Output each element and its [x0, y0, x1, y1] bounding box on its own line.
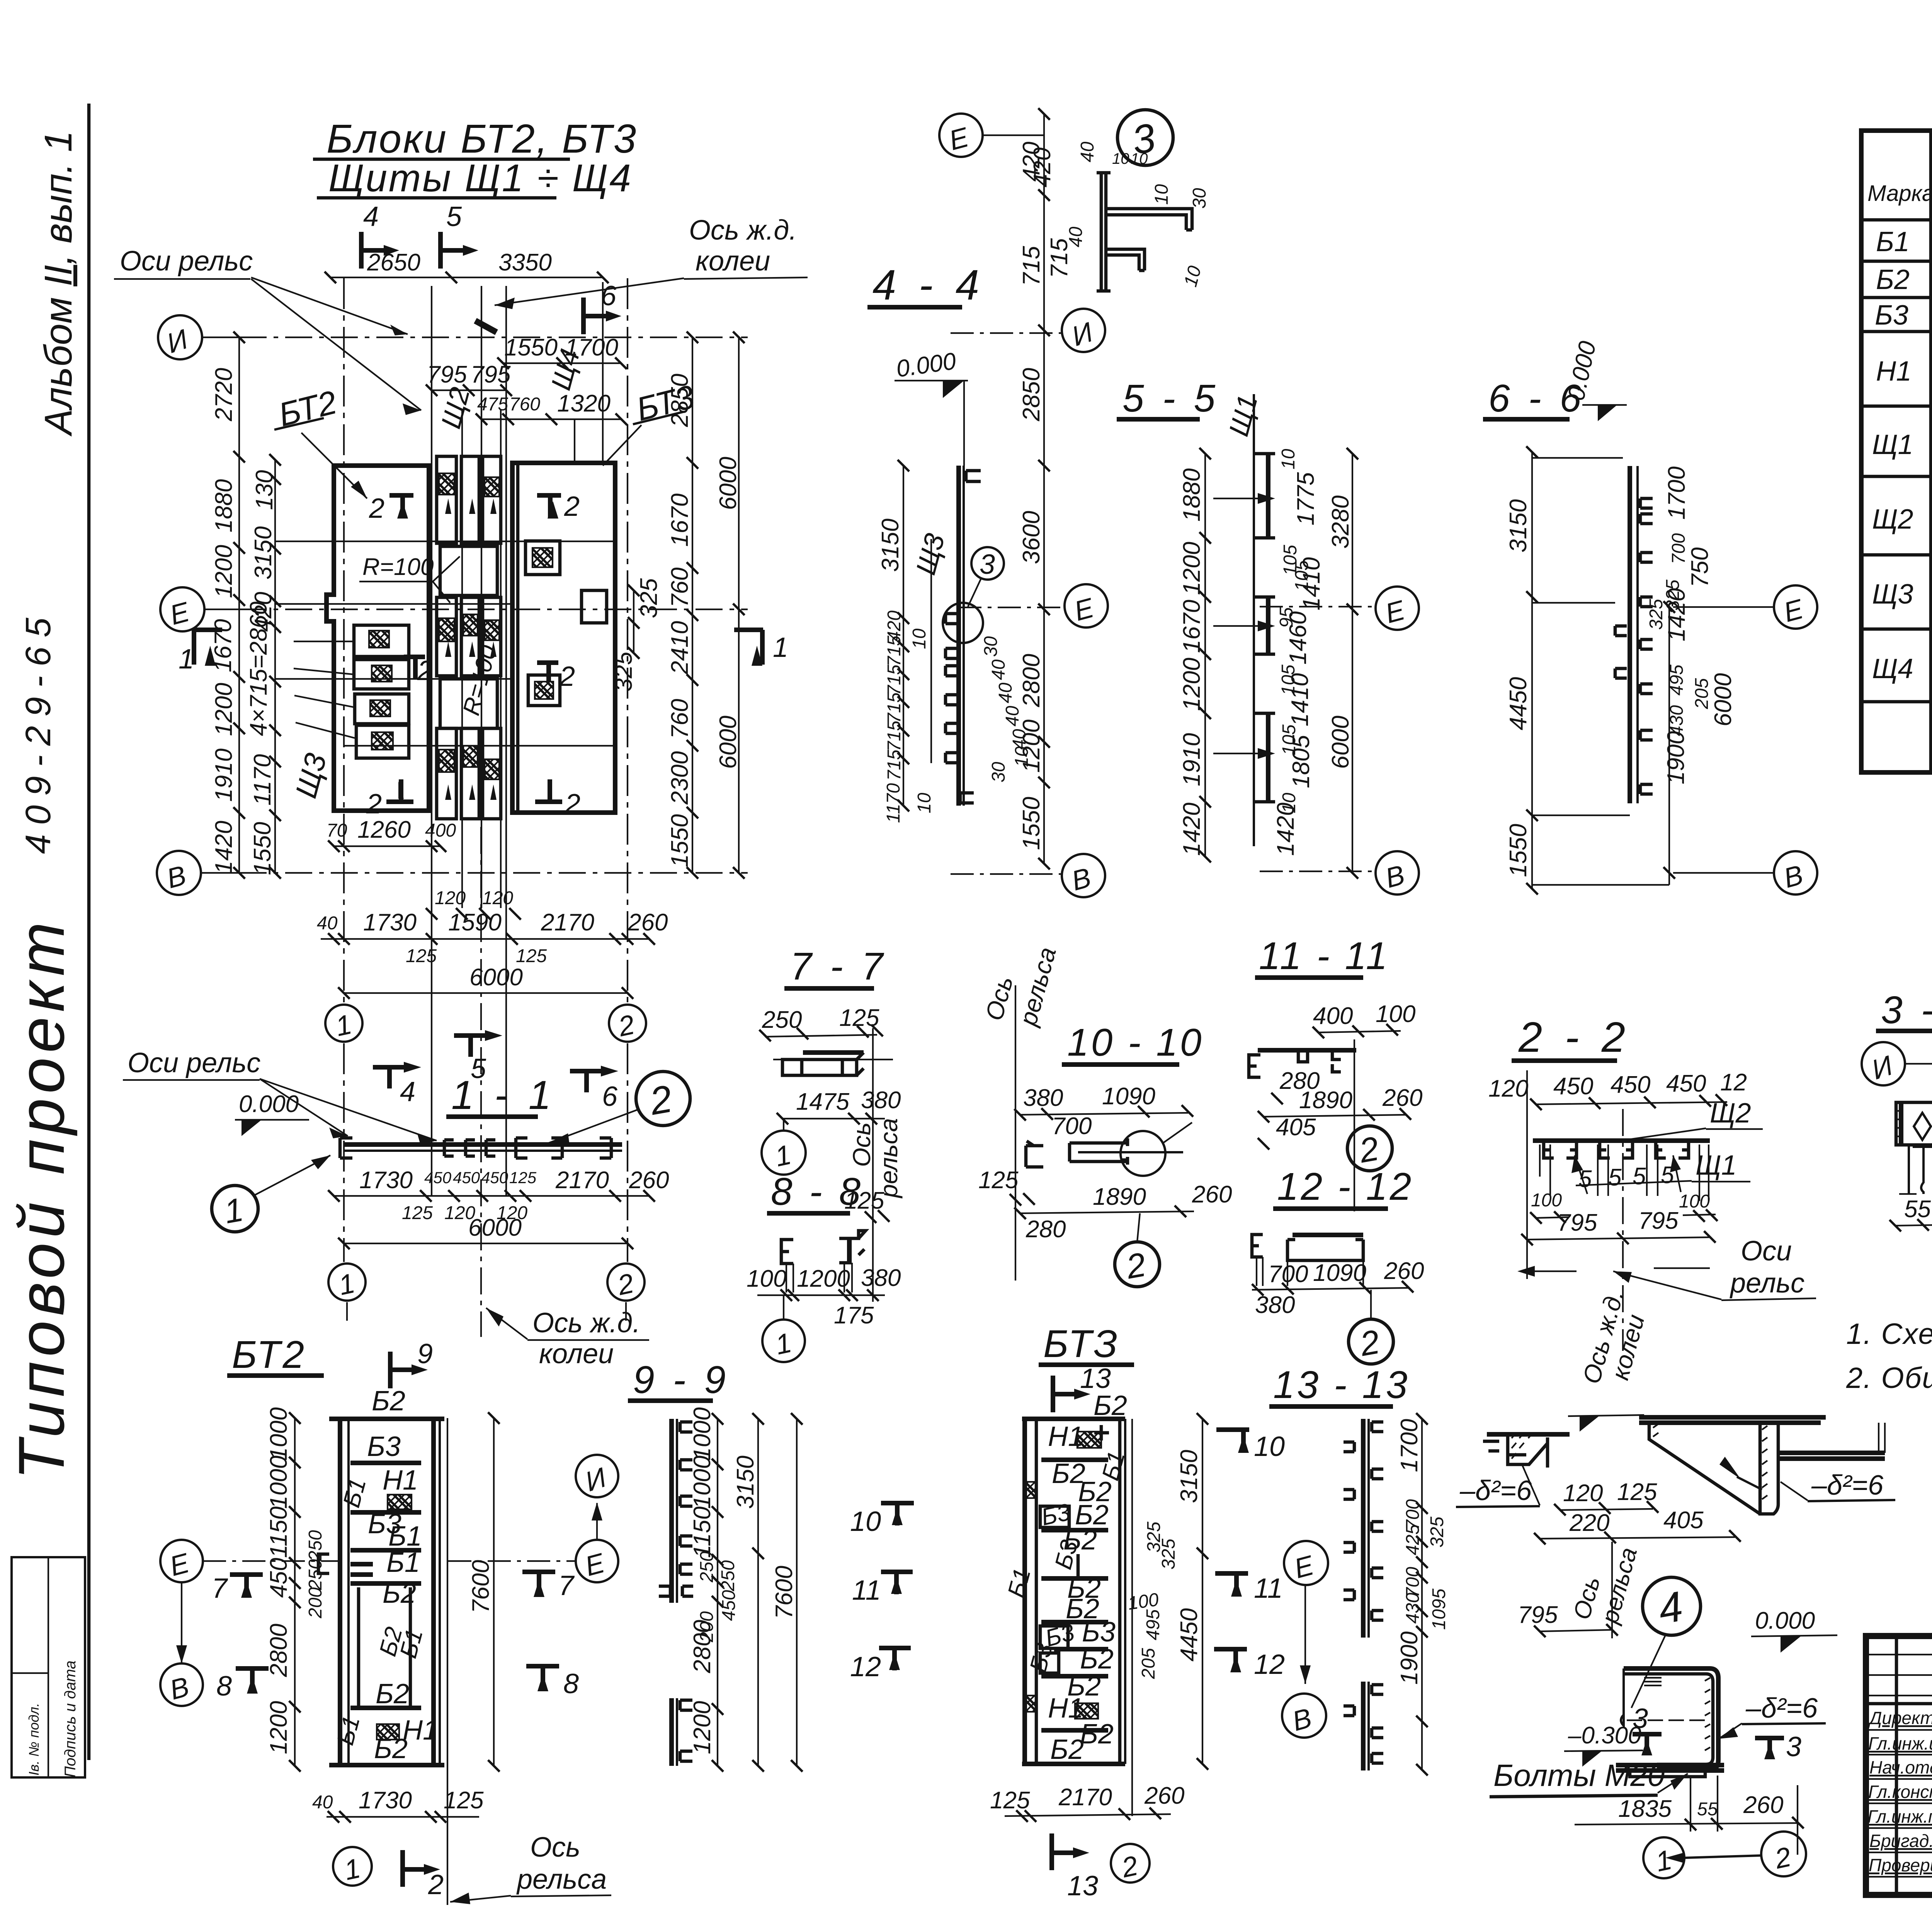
svg-text:3350: 3350: [498, 249, 552, 276]
beam horizontal member: [344, 1142, 622, 1147]
svg-text:Гл.инж.ин.: Гл.инж.ин.: [1868, 1733, 1932, 1753]
svg-text:0.000: 0.000: [895, 348, 957, 383]
svg-text:0.000: 0.000: [239, 1091, 299, 1117]
svg-text:450: 450: [481, 1168, 509, 1187]
svg-text:10: 10: [914, 793, 935, 813]
svg-text:405: 405: [1663, 1507, 1704, 1534]
svg-text:2: 2: [559, 661, 575, 692]
svg-text:Е: Е: [167, 1548, 193, 1582]
svg-text:125: 125: [402, 1203, 433, 1223]
svg-text:700: 700: [1052, 1113, 1092, 1139]
column circle 2: [1111, 1844, 1150, 1883]
svg-text:Оси: Оси: [1741, 1236, 1792, 1267]
right dim chain inner: [692, 337, 693, 873]
left angle piece: [1026, 1141, 1043, 1167]
left dim chain: [1531, 452, 1533, 889]
section cut flags 2 inside blocks: [366, 491, 580, 820]
svg-text:100: 100: [1376, 1001, 1415, 1027]
svg-text:1200: 1200: [211, 683, 237, 736]
svg-text:Оси рельс: Оси рельс: [120, 246, 253, 277]
svg-text:Н1: Н1: [403, 1715, 438, 1746]
svg-text:3150: 3150: [1505, 499, 1532, 553]
svg-text:1835: 1835: [1618, 1796, 1672, 1822]
svg-text:2650: 2650: [367, 249, 420, 276]
svg-text:Б3: Б3: [367, 1431, 401, 1462]
svg-text:Б1: Б1: [338, 1475, 371, 1510]
svg-text:2. Общие примечания см. лист: 2. Общие примечания см. лист КМ-40.: [1846, 1362, 1932, 1395]
svg-text:100: 100: [1679, 1191, 1710, 1212]
svg-text:100: 100: [747, 1265, 786, 1292]
svg-text:Б2: Б2: [1050, 1734, 1084, 1765]
DETAIL 3 (top): [1029, 110, 1210, 291]
signature header small grid: [1866, 1655, 1932, 1696]
svg-text:100: 100: [1531, 1190, 1562, 1211]
svg-text:–δ²=6: –δ²=6: [1459, 1475, 1532, 1506]
svg-text:Б3: Б3: [1875, 300, 1908, 331]
svg-text:2800: 2800: [1018, 654, 1045, 707]
svg-text:Проверил: Проверил: [1869, 1855, 1932, 1875]
svg-text:11: 11: [852, 1575, 881, 1606]
svg-text:1: 1: [773, 1327, 794, 1361]
svg-text:2300: 2300: [667, 751, 693, 805]
svg-text:715: 715: [1046, 238, 1073, 278]
svg-text:2: 2: [614, 1268, 636, 1301]
middle small channels: [444, 1140, 495, 1156]
right piece: [839, 1231, 866, 1263]
PLAN VIEW БТ2/БТ3: [114, 201, 808, 1337]
BOTTOM DETAILS: [1456, 1415, 1895, 1878]
SECTION 3-3: [1862, 988, 1932, 1289]
svg-text:795: 795: [1638, 1207, 1679, 1234]
svg-text:И: И: [1068, 316, 1097, 352]
svg-text:2: 2: [1119, 1850, 1141, 1884]
svg-text:450: 450: [1611, 1071, 1650, 1098]
svg-text:1900: 1900: [1663, 731, 1689, 784]
left sidebar vertical rule: [87, 104, 91, 1760]
cut flag 6: [570, 1071, 601, 1092]
bottom beam Б2: [329, 1763, 444, 1767]
svg-text:1: 1: [336, 1268, 357, 1301]
svg-text:125: 125: [990, 1787, 1030, 1814]
svg-text:260: 260: [628, 909, 668, 936]
svg-text:2170: 2170: [541, 909, 594, 936]
svg-text:205: 205: [1692, 678, 1712, 709]
svg-text:1550: 1550: [249, 822, 276, 875]
dim chain left inner: [274, 460, 276, 873]
right dim 7600: [493, 1418, 495, 1766]
detail balloon 2 (big): [636, 1071, 690, 1126]
clips along member: [1615, 498, 1653, 794]
svg-text:220: 220: [1569, 1510, 1609, 1536]
svg-text:13: 13: [1080, 1363, 1111, 1394]
ELEMENTS TABLE (Ведомость элементов): [1861, 85, 1932, 772]
svg-text:рельса: рельса: [875, 1118, 903, 1199]
enlargement circle around clip: [943, 603, 983, 643]
connector top: [440, 546, 497, 595]
svg-text:1910: 1910: [211, 748, 237, 802]
svg-text:2410: 2410: [667, 621, 693, 675]
legs going down with break: [1909, 1145, 1932, 1194]
table row lines: [1861, 261, 1932, 702]
svg-text:400: 400: [425, 820, 456, 841]
svg-text:11 - 11: 11 - 11: [1259, 934, 1389, 978]
svg-text:260: 260: [1144, 1782, 1184, 1809]
svg-text:400: 400: [1313, 1003, 1353, 1029]
БТ3 small rect: [582, 590, 607, 623]
svg-text:325: 325: [1158, 1539, 1179, 1570]
svg-text:125: 125: [406, 946, 437, 966]
right dim chain: [1421, 1419, 1423, 1770]
heavy line under header grid: [1866, 1702, 1932, 1706]
svg-text:420: 420: [1029, 148, 1056, 187]
NOTES: [1846, 1318, 1932, 1395]
svg-text:1475: 1475: [796, 1088, 849, 1115]
svg-text:260: 260: [1192, 1181, 1232, 1208]
channel pairs below deck: [1544, 1142, 1689, 1158]
svg-text:Е: Е: [1071, 592, 1097, 627]
SECTION 2-2: [1488, 1014, 1816, 1387]
bottom group: [437, 728, 456, 819]
svg-text:40: 40: [995, 682, 1016, 703]
left dim chain: [1204, 454, 1206, 857]
svg-text:Б1: Б1: [332, 1713, 365, 1748]
svg-text:Ів. № подл.: Ів. № подл.: [26, 1703, 42, 1776]
svg-text:Бригад.: Бригад.: [1869, 1831, 1932, 1851]
svg-text:4 - 4: 4 - 4: [872, 261, 985, 309]
section cut flag 6 (top): [583, 298, 606, 334]
svg-text:Б2: Б2: [374, 1733, 408, 1764]
svg-text:450: 450: [453, 1168, 480, 1187]
member vertical line: [1253, 394, 1255, 846]
axis circle В (left): [160, 1663, 203, 1706]
member vertical: [1628, 466, 1632, 803]
cut flag 7 right: [522, 1572, 555, 1595]
svg-text:40: 40: [312, 1792, 333, 1813]
svg-text:3150: 3150: [1176, 1450, 1202, 1503]
svg-text:Е: Е: [582, 1548, 608, 1582]
svg-text:1700: 1700: [1396, 1419, 1423, 1472]
svg-text:1420: 1420: [1272, 803, 1299, 856]
Н1 hatch bottom: [377, 1724, 399, 1740]
svg-text:1890: 1890: [1093, 1184, 1146, 1210]
svg-text:30: 30: [981, 636, 1001, 657]
svg-text:Нач.отд.: Нач.отд.: [1869, 1757, 1932, 1777]
svg-text:120: 120: [1488, 1075, 1528, 1102]
svg-text:1670: 1670: [667, 493, 693, 547]
svg-text:260: 260: [1384, 1258, 1424, 1284]
section cut flag 5 (top): [440, 232, 463, 269]
svg-text:760: 760: [509, 394, 540, 415]
SECTION 6-6: [1483, 339, 1817, 895]
svg-text:В: В: [163, 860, 189, 895]
svg-text:1: 1: [772, 1139, 794, 1173]
verticals down from pieces: [786, 1263, 852, 1293]
title block outer border: [1866, 1636, 1932, 1895]
svg-text:70: 70: [327, 820, 347, 841]
cut flag 7 left: [230, 1575, 263, 1598]
svg-text:Е: Е: [167, 596, 193, 631]
channel sketch: [1258, 1048, 1356, 1053]
right inner clip pair: [516, 1138, 562, 1158]
right corner sketch with brace: [1639, 1417, 1826, 1423]
column circles 1 and 2 with arrow: [1643, 1837, 1684, 1878]
column circle 2: [609, 1005, 646, 1042]
svg-text:2: 2: [1123, 1245, 1148, 1286]
detail balloon 3: [971, 547, 1004, 580]
svg-text:125: 125: [1617, 1479, 1657, 1505]
dim 475 760 1320: [481, 418, 621, 420]
svg-text:Щ1: Щ1: [1223, 392, 1264, 440]
detail balloon 2: [1347, 1126, 1392, 1171]
svg-text:3 - 3: 3 - 3: [1881, 988, 1932, 1032]
БТ2 block outline: [327, 466, 429, 811]
svg-text:Щ1: Щ1: [1872, 429, 1913, 460]
lying channel with plate: [1293, 1233, 1363, 1237]
svg-text:Е: Е: [1291, 1550, 1317, 1585]
svg-text:7600: 7600: [468, 1560, 494, 1613]
axis circle В: [1376, 851, 1419, 895]
svg-text:405: 405: [1276, 1114, 1316, 1141]
svg-text:795: 795: [1518, 1602, 1558, 1628]
svg-text:260: 260: [629, 1167, 669, 1194]
table outer border: [1861, 131, 1932, 772]
detail balloon 4: [1643, 1577, 1701, 1635]
svg-text:130: 130: [251, 470, 278, 510]
svg-text:1900: 1900: [1396, 1631, 1423, 1685]
arrows to member: [1213, 498, 1258, 753]
axis circle Е: [1774, 585, 1817, 629]
svg-text:3280: 3280: [1327, 495, 1354, 549]
svg-text:795: 795: [1557, 1209, 1597, 1236]
axis circle В: [157, 851, 201, 895]
svg-text:5: 5: [1608, 1164, 1622, 1191]
svg-text:6: 6: [602, 1081, 618, 1112]
svg-text:1: 1: [342, 1853, 363, 1886]
svg-text:6000: 6000: [1710, 673, 1736, 726]
svg-text:4450: 4450: [1505, 677, 1532, 730]
svg-text:Щиты Щ1 ÷ Щ4: Щиты Щ1 ÷ Щ4: [328, 156, 633, 200]
signature row lines: [1866, 1730, 1932, 1877]
svg-text:R=100: R=100: [362, 554, 434, 580]
leaders to hatched panels: [294, 641, 355, 738]
svg-text:1460: 1460: [1285, 611, 1311, 665]
svg-text:1805: 1805: [1288, 735, 1315, 788]
plate profile: [1097, 173, 1111, 291]
svg-text:7: 7: [558, 1570, 575, 1601]
bottom dim 6000: [344, 992, 628, 994]
svg-text:2: 2: [646, 1077, 675, 1123]
svg-text:1880: 1880: [1179, 468, 1205, 522]
signature table column lines: [1896, 1636, 1932, 1895]
svg-text:10: 10: [1254, 1431, 1285, 1462]
svg-text:1000: 1000: [265, 1407, 292, 1461]
top clip: [966, 471, 981, 481]
SECTION 11-11: [1249, 934, 1422, 1211]
svg-text:125: 125: [444, 1787, 484, 1814]
cut flag 5 (bottom of plan): [454, 1036, 485, 1057]
svg-text:760: 760: [667, 699, 693, 739]
connector bottom: [440, 679, 497, 728]
svg-text:0.000: 0.000: [1563, 339, 1601, 403]
svg-text:12 - 12: 12 - 12: [1277, 1165, 1413, 1208]
notch at E axis: [318, 1554, 329, 1573]
svg-text:1200: 1200: [1018, 719, 1045, 773]
left small channel: [1252, 1235, 1263, 1257]
svg-text:1170: 1170: [249, 754, 276, 806]
dim chain 2: 3150/7600: [757, 1419, 759, 1766]
lower channel sketch: [1624, 1668, 1718, 1770]
svg-text:2: 2: [564, 491, 580, 522]
axis circle Е (left): [160, 1540, 203, 1582]
svg-text:2 - 2: 2 - 2: [1518, 1014, 1631, 1061]
svg-text:Щ3: Щ3: [289, 750, 333, 801]
rail axis mark: [475, 321, 497, 332]
SECTION 13-13: [1269, 1363, 1449, 1776]
svg-text:Е: Е: [946, 122, 972, 156]
beam Б1: [350, 1548, 421, 1553]
svg-text:450: 450: [719, 1590, 739, 1621]
detail balloon 3: [1117, 110, 1173, 165]
svg-text:2170: 2170: [1058, 1784, 1112, 1811]
cut flag 8 left: [236, 1668, 269, 1692]
axis circle И: [1062, 309, 1105, 352]
БТ3 block outline: [512, 463, 615, 813]
svg-text:–δ²=6: –δ²=6: [1811, 1470, 1884, 1501]
svg-text:2720: 2720: [211, 368, 237, 422]
svg-text:9 - 9: 9 - 9: [633, 1358, 730, 1401]
svg-text:В: В: [1781, 859, 1806, 894]
svg-text:6000: 6000: [1327, 716, 1354, 769]
axis circle В: [1774, 851, 1817, 895]
svg-text:колеи: колеи: [539, 1338, 614, 1369]
svg-text:1550: 1550: [504, 334, 558, 361]
svg-text:430: 430: [1403, 1593, 1423, 1624]
svg-text:–0.300: –0.300: [1568, 1722, 1641, 1749]
svg-text:В: В: [1289, 1702, 1315, 1737]
svg-text:8: 8: [563, 1668, 579, 1699]
dashed mid line: [1627, 1719, 1708, 1721]
svg-text:5 - 5: 5 - 5: [1122, 377, 1219, 420]
svg-text:120: 120: [1563, 1480, 1603, 1507]
svg-text:40: 40: [988, 659, 1009, 680]
clips both sides: [1344, 1422, 1383, 1763]
svg-text:1000: 1000: [689, 1456, 716, 1509]
svg-text:1550: 1550: [667, 814, 693, 867]
detail balloon 2: [1349, 1319, 1393, 1364]
svg-text:260: 260: [1382, 1085, 1422, 1111]
clips: [659, 1422, 693, 1761]
svg-text:2850: 2850: [1018, 368, 1045, 422]
cut flags 10/11/12: [1216, 1430, 1249, 1453]
vertical member: [956, 466, 961, 806]
level flag top: [1568, 1415, 1644, 1416]
svg-text:200: 200: [305, 1587, 326, 1619]
SECTION 12-12: [1252, 1165, 1424, 1364]
cut flag 9 (top): [390, 1352, 412, 1388]
left angle sketch: [1487, 1432, 1570, 1437]
svg-text:1420: 1420: [211, 821, 237, 874]
section cut flag 1 (left): [193, 630, 222, 665]
svg-text:1150: 1150: [689, 1507, 716, 1558]
TITLE BLOCK: [1866, 1571, 1932, 1896]
SECTION 1-1: [123, 1030, 690, 1369]
svg-text:3: 3: [1786, 1731, 1801, 1762]
svg-text:495: 495: [1143, 1609, 1163, 1640]
svg-text:1910: 1910: [1179, 733, 1205, 786]
svg-text:700: 700: [1268, 1261, 1308, 1287]
verticals: [1257, 1257, 1363, 1286]
middle strip panels top group: [437, 456, 501, 819]
svg-text:13: 13: [1067, 1871, 1098, 1901]
cut flag 4: [373, 1067, 404, 1088]
svg-text:4: 4: [1655, 1582, 1686, 1633]
svg-text:1. Схему приемного устройств: 1. Схему приемного устройства см. лист К…: [1846, 1318, 1932, 1350]
top beam Б2: [329, 1417, 444, 1421]
column line 2: [626, 278, 628, 1321]
dim 795 795: [432, 389, 506, 391]
svg-text:рельса: рельса: [516, 1864, 607, 1895]
svg-text:Щ3: Щ3: [1872, 579, 1913, 610]
svg-text:колеи: колеи: [696, 246, 770, 277]
frame: two vertical rails: [340, 1418, 434, 1766]
cut flag 8 right: [526, 1666, 559, 1689]
column circle 1: [762, 1131, 806, 1175]
svg-text:8: 8: [216, 1671, 232, 1702]
leader circle 1 to left end: [212, 1185, 258, 1232]
svg-text:1: 1: [221, 1191, 246, 1231]
svg-text:Щ2: Щ2: [435, 384, 476, 432]
dim chain 1: [717, 1419, 718, 1766]
svg-text:715: 715: [884, 636, 905, 667]
svg-text:380: 380: [861, 1087, 901, 1114]
svg-text:–δ²=6: –δ²=6: [1745, 1693, 1818, 1724]
svg-text:И: И: [1868, 1050, 1896, 1085]
bottom clip: [960, 793, 974, 803]
svg-text:325: 325: [1427, 1517, 1447, 1548]
svg-text:1: 1: [773, 632, 788, 663]
SECTION 10-10: [978, 944, 1232, 1287]
svg-text:Б2: Б2: [1080, 1719, 1114, 1750]
svg-text:175: 175: [834, 1302, 874, 1329]
svg-text:2: 2: [417, 655, 433, 686]
svg-text:2: 2: [428, 1869, 444, 1900]
beam Б2 bottom: [350, 1706, 421, 1710]
SECTION 4-4: [867, 108, 1108, 897]
svg-text:1730: 1730: [359, 1167, 413, 1194]
middle group: [437, 597, 456, 676]
svg-text:205: 205: [1138, 1648, 1159, 1679]
axis circle Е: [160, 587, 204, 631]
svg-text:125: 125: [509, 1168, 537, 1187]
axis circle И (right): [576, 1455, 618, 1497]
svg-text:30: 30: [1189, 188, 1210, 209]
svg-text:260: 260: [1743, 1792, 1783, 1818]
svg-text:5: 5: [446, 201, 462, 232]
construction lines: [480, 827, 482, 1337]
svg-text:1150: 1150: [265, 1507, 292, 1558]
svg-text:1000: 1000: [689, 1407, 716, 1461]
svg-text:10: 10: [850, 1506, 881, 1537]
svg-text:В: В: [1068, 862, 1094, 897]
svg-text:9: 9: [417, 1338, 433, 1369]
svg-text:1410: 1410: [1298, 557, 1325, 611]
member vertical: [669, 1419, 674, 1766]
svg-text:Гл.констр: Гл.констр: [1868, 1782, 1932, 1802]
channel beam sketch: [803, 1050, 864, 1055]
svg-text:0.000: 0.000: [1755, 1607, 1815, 1634]
svg-text:1200: 1200: [1179, 542, 1205, 595]
svg-text:10: 10: [1278, 449, 1299, 469]
